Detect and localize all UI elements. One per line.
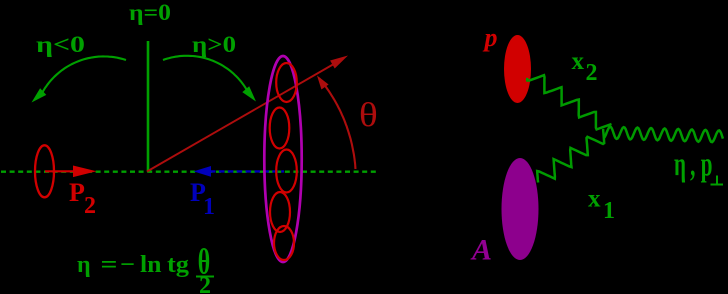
curved arrow eta>0 (163, 56, 250, 96)
svg-text:θ: θ (359, 96, 378, 134)
svg-text:η>0: η>0 (192, 32, 236, 57)
svg-text:x: x (588, 186, 601, 213)
red arrowhead (330, 56, 348, 69)
svg-text:=: = (101, 252, 118, 278)
proton ellipse (red filled) (504, 35, 531, 103)
detector cell ellipse 2 (red) (270, 108, 290, 149)
beam axis (dashed green horizontal line) (1, 170, 379, 172)
detector cell ellipse 1 (red) (276, 63, 297, 102)
svg-text:1: 1 (203, 194, 215, 220)
outgoing wavy line (eta, p_perp) (604, 127, 723, 142)
arrow P2 (red) (45, 170, 78, 172)
target ellipse (red outline) (35, 145, 54, 197)
vertical eta=0 axis line (147, 41, 150, 172)
svg-text:p: p (483, 23, 498, 52)
svg-text:x: x (572, 48, 585, 75)
nucleus ellipse A (purple filled) (502, 158, 539, 260)
arrow P1 (blue dashed) (210, 170, 284, 172)
label eta, p_perp (674, 147, 712, 184)
svg-text:tg: tg (167, 252, 189, 278)
svg-text:2: 2 (84, 193, 96, 219)
svg-text:2: 2 (586, 60, 598, 86)
detector ellipse (magenta outline) (264, 56, 301, 262)
svg-text:−: − (120, 252, 135, 278)
svg-text:2: 2 (199, 273, 211, 294)
svg-text:A: A (470, 234, 492, 267)
detector cell ellipse 4 (red) (270, 192, 290, 232)
detector cell ellipse 5 (red) (274, 226, 294, 260)
svg-text:P: P (69, 178, 85, 207)
gluon line x2 (wavy from proton to vertex) (527, 75, 611, 129)
curved arrow eta<0 (40, 56, 126, 97)
scattered particle red arrow line (147, 61, 339, 172)
fraction theta/2 (198, 242, 210, 282)
svg-text:η , p: η , p (674, 147, 712, 184)
detector cell ellipse 3 (red) (276, 150, 297, 193)
gluon line x1 (wavy from nucleus to vertex) (537, 129, 604, 183)
svg-text:η<0: η<0 (36, 32, 85, 57)
svg-text:η: η (77, 252, 91, 278)
svg-text:ln: ln (140, 252, 162, 278)
theta angle arc (319, 78, 356, 169)
label theta (359, 96, 378, 134)
svg-text:η=0: η=0 (129, 0, 171, 25)
perp subscript symbol (711, 184, 724, 186)
svg-text:1: 1 (603, 198, 615, 224)
